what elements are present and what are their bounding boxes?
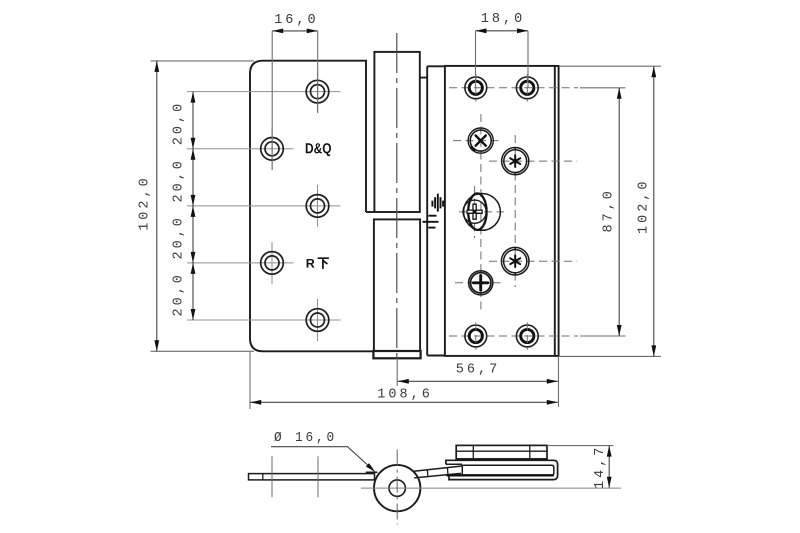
dimension 18,0 extension line right bbox=[527, 31, 529, 88]
side view bar tick left bbox=[262, 474, 264, 480]
chain arrows row4 bbox=[191, 252, 196, 263]
side view channel inner bottom thick bbox=[447, 474, 554, 476]
plate hole P3 vertical centerline bbox=[475, 323, 477, 350]
screw B (star head) bbox=[502, 148, 529, 175]
left leaf hole H4 crosshair bbox=[187, 262, 294, 264]
side view top block mid line bbox=[456, 450, 547, 452]
side view arm bottom edge bbox=[414, 473, 461, 478]
side view screw centerline a bbox=[271, 456, 273, 497]
hinge pin centerline bbox=[396, 33, 398, 358]
dimension 102,0 right extension bottom bbox=[559, 355, 661, 357]
dimension 56,7 arrows bbox=[398, 379, 409, 384]
dimension 18,0 line bbox=[476, 30, 529, 32]
svg-text:87,0: 87,0 bbox=[602, 188, 617, 232]
plate hole P1 vertical centerline bbox=[475, 74, 477, 102]
dimension 14,7 arrows bbox=[607, 446, 612, 457]
dimension 18,0 arrows bbox=[476, 28, 487, 33]
label xia (CJK down) glyph bbox=[318, 258, 328, 268]
dimension 102,0 left line bbox=[156, 61, 158, 351]
dimension 16,0 arrows bbox=[272, 29, 283, 34]
left leaf hole H4 bbox=[261, 252, 284, 275]
screw D crosshair bbox=[455, 282, 505, 284]
side view vertical centerline bbox=[396, 450, 398, 525]
dimension 18,0 extension line left bbox=[475, 31, 477, 88]
dimension 16,0 extension line left bbox=[271, 31, 273, 170]
dimension 102,0 right arrows bbox=[651, 66, 656, 77]
hinge barrel upper knuckle bbox=[374, 52, 419, 212]
screw D (phillips cross head) bbox=[469, 271, 493, 295]
right leaf back piece top edge bbox=[420, 66, 445, 77]
dimension 16,0 extension line right bbox=[317, 31, 319, 113]
screw B crosshair bbox=[489, 160, 577, 162]
svg-text:56,7: 56,7 bbox=[456, 363, 500, 378]
svg-text:16,0: 16,0 bbox=[274, 13, 318, 28]
screw A crosshair bbox=[453, 140, 500, 142]
diameter label leader bbox=[271, 447, 373, 470]
plate hole row centerline bottom bbox=[449, 335, 578, 337]
dimension 108,6 arrows bbox=[250, 400, 261, 405]
chain dimension 20,0 line bbox=[192, 92, 194, 320]
plate hole P2 bbox=[516, 77, 538, 99]
dimension 87,0 arrows bbox=[617, 88, 622, 99]
screw A (45 deg cross head) bbox=[468, 128, 493, 153]
side view bar step right bbox=[367, 472, 378, 473]
screw column centerline left bbox=[480, 114, 482, 310]
right leaf back piece bottom edge bbox=[427, 355, 445, 357]
side view arm tick 1 bbox=[426, 470, 428, 477]
plate hole P2 vertical centerline bbox=[526, 74, 528, 102]
plate hole P1 bbox=[465, 77, 487, 99]
hinge barrel joint line bbox=[366, 211, 374, 213]
svg-text:102,0: 102,0 bbox=[637, 178, 652, 234]
hinge barrel bottom cap bbox=[373, 351, 420, 358]
left leaf hole H1 bbox=[306, 80, 329, 103]
side view channel outer bbox=[446, 460, 558, 479]
big screw U1 (dome with phillips) bbox=[463, 193, 500, 230]
dimension 56,7 extension right bbox=[558, 356, 560, 407]
dimension 102,0 left extension bottom bbox=[151, 350, 255, 352]
side view knuckle circle bbox=[374, 465, 420, 511]
screw C crosshair bbox=[489, 260, 577, 262]
svg-text:108,6: 108,6 bbox=[377, 387, 433, 402]
chain arrows row1 bbox=[191, 92, 196, 103]
dimension 108,6 line bbox=[250, 401, 558, 403]
svg-text:20,0: 20,0 bbox=[172, 272, 187, 316]
left leaf hole H2 crosshair bbox=[187, 148, 294, 150]
side view left bar bbox=[249, 474, 375, 480]
right leaf bent lip bbox=[555, 66, 559, 356]
svg-text:102,0: 102,0 bbox=[138, 175, 153, 231]
chain arrows row2 bbox=[191, 138, 196, 149]
side view screw centerline b bbox=[317, 456, 319, 497]
plate hole row centerline top bbox=[449, 87, 578, 89]
dimension 87,0 line bbox=[618, 88, 620, 336]
left leaf hole H1 crosshair bbox=[187, 91, 341, 93]
adjustment mark horizontal bars bbox=[423, 216, 439, 228]
left leaf hole H2 bbox=[261, 138, 284, 161]
left leaf hole H3 crosshair bbox=[187, 205, 341, 207]
side view top block tick 1 bbox=[472, 445, 474, 459]
adjustment mark vertical bars bbox=[432, 194, 443, 212]
dimension 16,0 line bbox=[272, 30, 318, 32]
left leaf hole H5 bbox=[306, 309, 329, 332]
left leaf hole H5 crosshair bbox=[187, 319, 341, 321]
side view top block bbox=[456, 445, 547, 459]
dimension 14,7 line bbox=[608, 446, 610, 488]
chain arrows row3 bbox=[191, 195, 196, 206]
screw C (star head) bbox=[501, 247, 529, 275]
svg-text:14,7: 14,7 bbox=[593, 445, 608, 489]
screw column centerline right bbox=[514, 135, 516, 287]
dimension 56,7 line bbox=[398, 380, 558, 382]
dimension 102,0 left extension top bbox=[151, 60, 255, 62]
hinge barrel lower knuckle bbox=[374, 219, 420, 351]
dimension 102,0 left arrows bbox=[154, 61, 159, 72]
big screw crosshair bbox=[459, 211, 504, 213]
left leaf hole H3 bbox=[306, 195, 329, 218]
svg-text:18,0: 18,0 bbox=[481, 12, 525, 27]
plate hole P4 bbox=[516, 325, 538, 347]
dimension 102,0 right line bbox=[653, 66, 655, 356]
svg-text:D&Q: D&Q bbox=[305, 141, 332, 157]
side view arm tick 2 bbox=[447, 468, 449, 475]
dimension 87,0 extension bottom bbox=[580, 335, 626, 337]
side view channel inner bbox=[462, 465, 554, 475]
side view channel lip step bbox=[446, 463, 462, 465]
side view top block tick 2 bbox=[529, 445, 531, 459]
dimension 56,7 extension left bbox=[396, 358, 398, 386]
dimension 108,6 extension left bbox=[249, 351, 251, 409]
diameter label arrow bbox=[366, 463, 376, 472]
right leaf back piece left edge bbox=[426, 66, 428, 355]
plate hole P4 vertical centerline bbox=[526, 323, 528, 350]
svg-text:20,0: 20,0 bbox=[172, 101, 187, 145]
dimension 102,0 right extension top bbox=[560, 65, 661, 67]
side view pin hole bbox=[389, 480, 405, 496]
plate hole P3 bbox=[465, 325, 487, 347]
svg-text:Ø 16,0: Ø 16,0 bbox=[274, 431, 337, 446]
dimension 14,7 extension top bbox=[547, 445, 614, 447]
svg-text:20,0: 20,0 bbox=[172, 215, 187, 259]
svg-text:R: R bbox=[306, 257, 315, 271]
side view arm top edge bbox=[414, 466, 462, 471]
chain arrows row5 bbox=[191, 309, 196, 320]
big screw extra centerline bbox=[474, 186, 476, 238]
dimension 87,0 extension top bbox=[580, 87, 626, 89]
right leaf front plate bbox=[445, 66, 555, 356]
side view horizontal centerline bbox=[361, 487, 621, 489]
svg-text:20,0: 20,0 bbox=[172, 158, 187, 202]
left leaf outline bbox=[250, 61, 374, 352]
